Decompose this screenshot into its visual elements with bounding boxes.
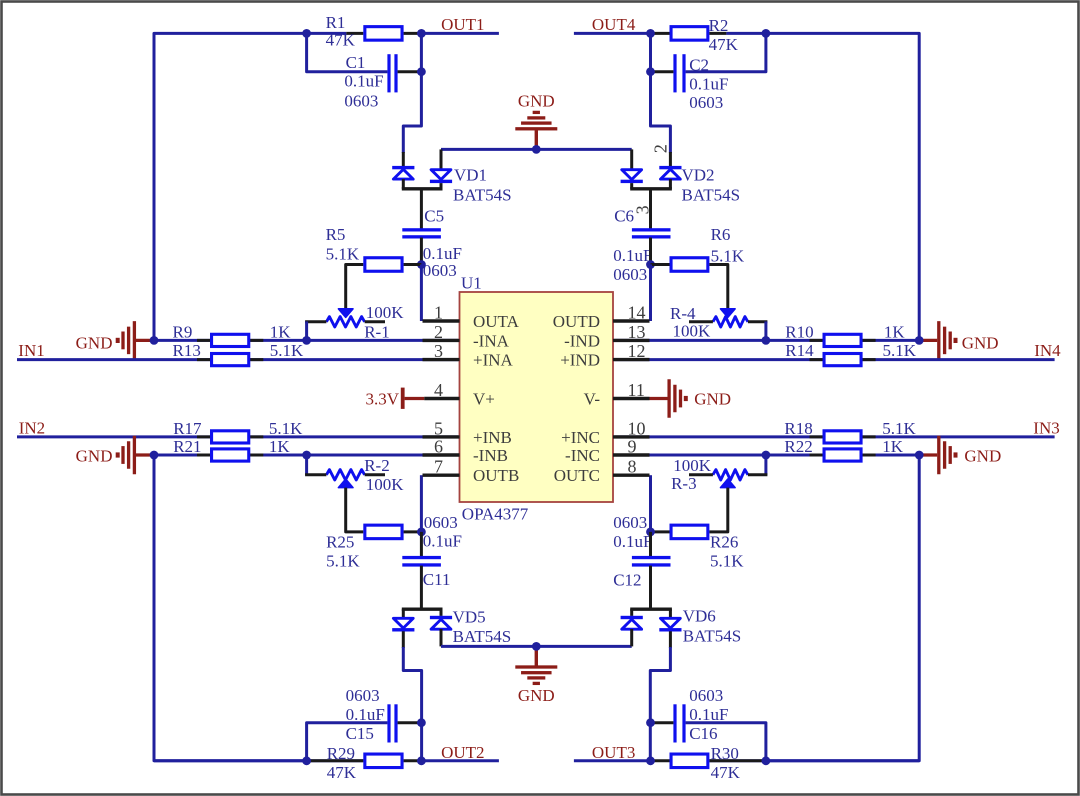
svg-text:R29: R29 (327, 744, 355, 763)
svg-text:IN4: IN4 (1034, 341, 1061, 360)
wire VD2 lead from rail (630, 149, 633, 170)
svg-text:11: 11 (628, 380, 645, 400)
wire OUT4 jog down to VD2 (651, 33, 671, 153)
capacitor C5 (402, 228, 441, 231)
wire R2 left lead (651, 32, 670, 35)
wire R-4 right terminal (748, 320, 768, 323)
svg-text:R25: R25 (326, 532, 354, 551)
resistor R18 (824, 431, 861, 443)
wire R13 leads (197, 358, 263, 361)
resistor R9 (212, 334, 249, 346)
svg-text:1K: 1K (882, 437, 904, 456)
svg-text:47K: 47K (326, 31, 356, 50)
power 3.3V bar (401, 388, 405, 409)
pin 11 lead (613, 397, 650, 400)
svg-text:IN3: IN3 (1033, 419, 1059, 438)
svg-text:5: 5 (434, 418, 443, 438)
svg-text:0603: 0603 (423, 261, 457, 280)
svg-text:R10: R10 (785, 322, 813, 341)
svg-text:5.1K: 5.1K (882, 419, 916, 438)
svg-text:GND: GND (518, 686, 555, 705)
capacitor C16 (673, 704, 676, 742)
wire R25 right lead (404, 530, 422, 533)
svg-text:C11: C11 (423, 570, 451, 589)
svg-text:C12: C12 (613, 570, 641, 589)
svg-text:0.1uF: 0.1uF (344, 72, 383, 91)
svg-text:3.3V: 3.3V (365, 389, 399, 408)
wire R6 left lead (651, 263, 670, 266)
potentiometer R-1 (338, 309, 353, 318)
svg-text:R-4: R-4 (670, 304, 696, 323)
svg-text:GND: GND (76, 447, 113, 466)
svg-text:BAT54S: BAT54S (682, 185, 741, 204)
svg-text:5.1K: 5.1K (269, 419, 303, 438)
wire R-4 left stub (689, 320, 713, 323)
resistor R29 (365, 754, 402, 768)
junction R2 right (762, 29, 771, 38)
svg-text:-INA: -INA (473, 331, 510, 350)
svg-text:C1: C1 (346, 53, 366, 72)
svg-text:VD2: VD2 (682, 165, 715, 184)
wire VD2 cathode lead (669, 152, 672, 166)
svg-text:-INC: -INC (565, 446, 600, 465)
junction R1 right (417, 29, 426, 38)
svg-text:R5: R5 (326, 225, 346, 244)
svg-text:12: 12 (628, 341, 646, 361)
resistor R5 (365, 258, 402, 272)
svg-text:5.1K: 5.1K (326, 244, 360, 263)
svg-text:R1: R1 (326, 13, 346, 32)
junction R-2 on -INB (302, 451, 311, 460)
svg-text:-IND: -IND (564, 331, 600, 350)
pin 5 lead (423, 435, 460, 438)
wire R-3 left stub (689, 473, 713, 476)
wire R-2 right stub (365, 473, 385, 476)
svg-text:GND: GND (962, 334, 999, 353)
svg-text:R-3: R-3 (671, 474, 697, 493)
wire node to C11 (420, 532, 423, 557)
svg-text:5.1K: 5.1K (326, 552, 360, 571)
svg-text:1: 1 (434, 303, 443, 323)
svg-text:GND: GND (964, 447, 1001, 466)
svg-text:OUT3: OUT3 (592, 743, 635, 762)
svg-text:14: 14 (628, 303, 646, 323)
svg-text:VD1: VD1 (454, 165, 487, 184)
svg-text:R-2: R-2 (364, 456, 390, 475)
ground GND input A (136, 339, 154, 342)
svg-text:R26: R26 (710, 533, 738, 552)
svg-text:5.1K: 5.1K (710, 551, 744, 570)
svg-text:BAT54S: BAT54S (683, 627, 742, 646)
svg-text:13: 13 (628, 322, 646, 342)
junction R-1 on -INA (302, 336, 311, 345)
wire C16 left branch (651, 721, 674, 724)
wire R-2 left terminal (305, 455, 308, 475)
svg-text:R17: R17 (173, 419, 202, 438)
wire R21 leads (197, 454, 263, 457)
wire R29 right lead (404, 759, 422, 762)
wire OUT2 row left (154, 759, 363, 762)
svg-text:2: 2 (650, 144, 670, 153)
wire net OUTD feedback top (766, 33, 919, 338)
svg-text:47K: 47K (709, 35, 739, 54)
junction GND rail bottom (532, 642, 541, 651)
pin 10 lead (613, 435, 650, 438)
wire R2 right lead (709, 32, 726, 35)
wire R30 left lead (651, 759, 670, 762)
junction R29 left (302, 756, 311, 765)
svg-text:47K: 47K (711, 763, 741, 782)
resistor R21 (212, 449, 249, 461)
potentiometer R-3 (721, 479, 736, 488)
wire VD2 common bar (630, 187, 672, 190)
wire R9 leads (197, 339, 263, 342)
wire C15 right branch (398, 721, 422, 724)
diode VD1 right half (431, 170, 451, 180)
svg-text:OUTB: OUTB (473, 466, 519, 485)
wire R5 right lead (404, 263, 422, 266)
svg-text:OUTA: OUTA (473, 312, 520, 331)
wire pin7 to node (420, 475, 423, 532)
wire R6 right lead (709, 265, 727, 309)
wire C2 left branch (651, 70, 674, 73)
wire C5 to node (420, 238, 423, 265)
junction R30 right (762, 756, 771, 765)
pin 2 lead (423, 339, 460, 342)
wire OUT3 row right (709, 759, 919, 762)
junction R25/C11 node (417, 528, 426, 537)
potentiometer R-4 (721, 309, 736, 318)
ground GND input B (136, 453, 154, 456)
wire net OUTB feedback bottom (154, 457, 306, 761)
diode VD1 left half (393, 169, 413, 179)
svg-text:5.1K: 5.1K (711, 247, 745, 266)
svg-text:+INA: +INA (473, 351, 514, 370)
wire R-1 right stub (365, 320, 385, 323)
junction R1 left (302, 29, 311, 38)
pin 4 V+ lead (424, 397, 459, 400)
ground GND input D (919, 339, 937, 342)
capacitor C11 (402, 556, 441, 559)
svg-text:OPA4377: OPA4377 (462, 505, 529, 524)
capacitor C1 (387, 54, 390, 92)
junction GND/R9 (150, 336, 159, 345)
wire IN4 row (615, 358, 1055, 361)
svg-text:0.1uF: 0.1uF (613, 532, 652, 551)
capacitor C6 (632, 228, 671, 231)
junction R30 left (646, 756, 655, 765)
svg-text:8: 8 (628, 457, 637, 477)
svg-text:C5: C5 (424, 206, 444, 225)
svg-text:+IND: +IND (560, 351, 600, 370)
junction R6/C6 node (646, 260, 655, 269)
wire net OUTC feedback bottom (767, 457, 920, 761)
wire node to pin1 (420, 265, 423, 322)
diode VD2 right half (661, 169, 681, 179)
svg-text:GND: GND (76, 334, 113, 353)
svg-text:IN2: IN2 (19, 419, 45, 438)
svg-text:9: 9 (628, 437, 637, 457)
wire IN3 row (615, 435, 1055, 438)
svg-text:V+: V+ (473, 390, 495, 409)
wire R-3 right terminal (764, 455, 767, 475)
svg-text:R30: R30 (711, 744, 739, 763)
svg-text:100K: 100K (366, 475, 405, 494)
svg-text:0603: 0603 (613, 265, 647, 284)
pin 14 lead (613, 319, 650, 322)
wire VD1 common bar (402, 187, 443, 190)
junction C15 right (417, 718, 426, 727)
svg-text:1K: 1K (270, 322, 292, 341)
wire VD1 cathode lead from rail (440, 149, 443, 170)
svg-text:0603: 0603 (424, 513, 458, 532)
junction C1 right (417, 67, 426, 76)
wire OUT3 (574, 759, 651, 762)
ground GND V- (650, 397, 668, 400)
wire R22 leads (810, 454, 876, 457)
junction C16 left (646, 718, 655, 727)
capacitor C15 (387, 704, 390, 742)
svg-text:4: 4 (434, 380, 443, 400)
pin 7 lead (423, 474, 460, 477)
resistor R26 (671, 525, 708, 539)
wire C11 to VD5 (420, 566, 423, 610)
resistor R6 (671, 258, 708, 272)
resistor R30 (671, 754, 708, 768)
svg-text:R14: R14 (785, 341, 814, 360)
wire OUT2 (421, 759, 499, 762)
junction R-3 on -INC (762, 451, 771, 460)
diode VD5 left half (402, 609, 405, 618)
pin 13 lead (613, 339, 650, 342)
wire R30 right lead (709, 759, 766, 762)
svg-text:0603: 0603 (689, 686, 723, 705)
resistor R13 (212, 354, 249, 366)
svg-text:GND: GND (694, 389, 731, 408)
wire R-3 wiper to R26 (709, 488, 727, 532)
wire C6 to node (649, 238, 652, 265)
svg-text:OUTC: OUTC (554, 466, 600, 485)
svg-text:0.1uF: 0.1uF (423, 244, 462, 263)
wire IN1 row (17, 358, 458, 361)
wire VD6 to rail (630, 629, 633, 646)
svg-text:100K: 100K (673, 322, 712, 341)
wire R1 left lead (307, 32, 347, 35)
svg-text:100K: 100K (673, 456, 712, 475)
svg-text:OUT4: OUT4 (592, 15, 636, 34)
resistor R17 (212, 431, 249, 443)
junction R29 right (417, 756, 426, 765)
pin 9 lead (613, 453, 650, 456)
svg-text:0603: 0603 (346, 686, 380, 705)
wire VD2 to C6 (649, 189, 652, 229)
wire C15 left branch (307, 723, 388, 761)
svg-text:0603: 0603 (344, 92, 378, 111)
junction R-4 on -IND (762, 336, 771, 345)
resistor R14 (824, 354, 861, 366)
svg-text:OUT2: OUT2 (441, 743, 484, 762)
resistor R22 (824, 449, 861, 461)
resistor R10 (824, 334, 861, 346)
svg-text:GND: GND (518, 91, 555, 110)
wire R18 leads (810, 435, 876, 438)
wire R17 leads (197, 435, 263, 438)
svg-text:1K: 1K (269, 437, 291, 456)
svg-text:R13: R13 (173, 341, 201, 360)
diode VD6 left half (630, 609, 633, 616)
wire R26 left lead (651, 530, 670, 533)
wire VD5 jog down to OUT2 (402, 631, 405, 648)
resistor R25 (365, 525, 402, 539)
svg-text:BAT54S: BAT54S (453, 185, 512, 204)
svg-text:VD5: VD5 (453, 608, 486, 627)
wire VD6 common bar (630, 608, 672, 611)
svg-text:U1: U1 (461, 274, 482, 293)
svg-text:0.1uF: 0.1uF (689, 74, 728, 93)
ground GND top (535, 130, 538, 146)
wire C16 right branch (686, 723, 766, 761)
junction GND/R10 (915, 336, 924, 345)
ground GND input C (919, 453, 937, 456)
svg-text:C16: C16 (689, 724, 717, 743)
wire OUT1 (420, 32, 499, 35)
svg-text:BAT54S: BAT54S (453, 627, 512, 646)
svg-text:2: 2 (434, 322, 443, 342)
wire VD5 common bar (402, 608, 443, 611)
junction R26/C12 node (646, 528, 655, 537)
wire C1 right branch (398, 70, 422, 73)
ground GND bottom (535, 650, 538, 666)
svg-text:-INB: -INB (473, 446, 508, 465)
svg-text:10: 10 (628, 418, 646, 438)
wire -IND row (615, 339, 920, 342)
svg-text:IN1: IN1 (18, 341, 44, 360)
diode VD5 right half (440, 609, 443, 616)
wire R10 leads (810, 339, 876, 342)
svg-text:R22: R22 (784, 437, 812, 456)
wire C1 left branch (307, 33, 388, 71)
wire C12 to VD6 (649, 566, 652, 610)
wire R-2 wiper to R25 (346, 488, 364, 532)
wire -INC row (615, 454, 920, 457)
svg-text:C2: C2 (689, 55, 709, 74)
svg-text:OUTD: OUTD (553, 312, 600, 331)
svg-text:R9: R9 (173, 322, 193, 341)
wire OUT4 (574, 32, 652, 35)
svg-text:0603: 0603 (613, 513, 647, 532)
pin 6 lead (423, 453, 460, 456)
svg-text:+INB: +INB (473, 428, 512, 447)
diode VD2 left half (622, 170, 642, 180)
capacitor C12 (632, 556, 671, 559)
wire -INA row (154, 339, 458, 342)
svg-text:OUT1: OUT1 (441, 15, 484, 34)
wire GND rail bottom (441, 645, 632, 648)
wire R-1 left terminal (305, 320, 326, 323)
svg-text:0603: 0603 (689, 93, 723, 112)
junction GND/R22 (915, 451, 924, 460)
pin 8 lead (613, 474, 650, 477)
svg-text:R-1: R-1 (364, 323, 390, 342)
svg-text:+INC: +INC (561, 428, 600, 447)
pin 1 lead (423, 319, 460, 322)
op-amp U1 OPA4377 body (460, 292, 614, 502)
capacitor C2 (673, 54, 676, 92)
wire R5 left lead (346, 265, 364, 309)
resistor R2 (671, 27, 708, 41)
wire OUT1 jog down to VD1 (403, 33, 421, 153)
wire node to C12 (649, 532, 652, 557)
svg-text:1K: 1K (884, 322, 906, 341)
junction R2 left (646, 29, 655, 38)
wire VD5 to rail (440, 629, 443, 646)
svg-text:R21: R21 (173, 437, 201, 456)
junction C2 left (646, 67, 655, 76)
svg-text:VD6: VD6 (683, 607, 716, 626)
junction R5/C5 node (417, 260, 426, 269)
wire VD6 jog down to OUT3 (669, 631, 672, 648)
svg-text:100K: 100K (366, 303, 405, 322)
svg-text:5.1K: 5.1K (883, 341, 917, 360)
wire R14 leads (810, 358, 876, 361)
svg-text:47K: 47K (327, 763, 357, 782)
pin 12 lead (613, 358, 650, 361)
resistor R1 (365, 27, 402, 41)
wire node to pin14 (649, 265, 652, 322)
svg-text:3: 3 (434, 341, 443, 361)
potentiometer R-2 (338, 479, 353, 488)
wire pin8 to node (649, 475, 652, 532)
junction GND rail top (532, 145, 541, 154)
svg-text:3: 3 (632, 205, 652, 214)
svg-text:C6: C6 (614, 207, 634, 226)
wire VD1 anode lead (402, 152, 405, 166)
svg-text:C15: C15 (346, 724, 374, 743)
wire net OUTA feedback top (154, 33, 307, 338)
diode VD6 right half (669, 609, 672, 618)
svg-text:0.1uF: 0.1uF (423, 531, 462, 550)
svg-text:7: 7 (434, 457, 443, 477)
wire VD1 to C5 (420, 189, 423, 229)
junction GND/R21 (150, 451, 159, 460)
svg-text:0.1uF: 0.1uF (613, 246, 652, 265)
svg-text:R18: R18 (784, 419, 812, 438)
svg-text:V-: V- (584, 390, 601, 409)
wire R29 left lead (307, 759, 364, 762)
wire GND rail top (441, 148, 632, 151)
wire R1 right lead (404, 32, 422, 35)
svg-text:5.1K: 5.1K (270, 341, 304, 360)
wire C2 right branch (686, 33, 766, 71)
pin 3 lead (423, 358, 460, 361)
svg-text:R6: R6 (711, 225, 731, 244)
wire -INB row (154, 454, 458, 457)
wire IN2 row (17, 435, 458, 438)
svg-text:6: 6 (434, 437, 443, 457)
